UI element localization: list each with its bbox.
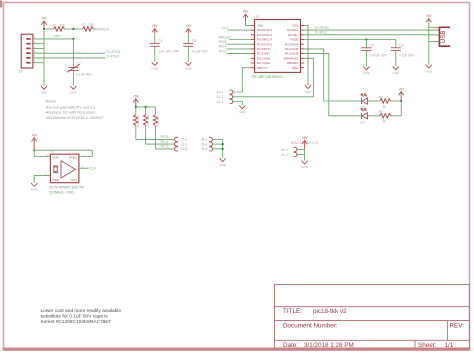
supply +5V (pull-ups): [133, 95, 140, 107]
svg-text:RA4/OSC2: RA4/OSC2: [257, 33, 273, 37]
svg-text:CLK: CLK: [90, 167, 98, 171]
U3 right pin names: [284, 24, 299, 70]
svg-text:D+/PGD: D+/PGD: [107, 50, 121, 54]
svg-text:X1: X1: [50, 150, 54, 154]
capacitor C4: [150, 39, 180, 54]
pin J5-6: [201, 147, 213, 151]
pin J5-1: [175, 137, 188, 141]
wire connector pin2 stub: [33, 43, 44, 45]
wire X1 OUT to CLK: [79, 167, 97, 171]
resistor R5: [153, 107, 160, 149]
svg-text:•0Ω Bourns #CR1206-J/-000ELF: •0Ω Bourns #CR1206-J/-000ELF: [46, 115, 105, 120]
wire RC5 net: [219, 40, 251, 44]
svg-text:VDD: VDD: [257, 24, 264, 28]
svg-text:PIC18F14K50/SO: PIC18F14K50/SO: [252, 74, 283, 79]
bottom-left substitution note: [41, 308, 122, 325]
svg-text:1k: 1k: [383, 120, 387, 124]
wire RC4 net: [219, 45, 251, 49]
node dot VPP: [72, 38, 74, 40]
svg-text:R5: R5: [156, 115, 160, 119]
svg-text:10k: 10k: [156, 122, 160, 128]
svg-text:/MCLR: /MCLR: [219, 35, 231, 39]
svg-text:0.1uF 50V: 0.1uF 50V: [192, 49, 208, 53]
ground (U3 VSS): [305, 85, 313, 94]
svg-text:1uF 16V X5R: 1uF 16V X5R: [159, 49, 180, 53]
wire R7 to +5V column: [391, 115, 401, 117]
supply +5V (X1): [31, 134, 38, 151]
svg-text:1/1: 1/1: [445, 342, 454, 349]
svg-text:J5-3: J5-3: [181, 142, 188, 146]
svg-text:+5V: +5V: [426, 14, 433, 18]
wire C4 to GND: [154, 47, 156, 62]
supply +5V (C5): [185, 24, 192, 33]
wire D-/PGC from header: [33, 57, 106, 59]
svg-text:10k: 10k: [146, 122, 150, 128]
svg-text:•Do not populate R1 and C1.: •Do not populate R1 and C1.: [46, 104, 97, 109]
wire D-/PGC to USB: [304, 31, 439, 35]
node dot rail R3: [135, 106, 137, 108]
resistor R6: [379, 95, 391, 109]
pin J5-2: [201, 137, 213, 141]
svg-text:1k: 1k: [383, 105, 387, 109]
svg-text:J4-3: J4-3: [217, 100, 224, 104]
wire J5-2 to gnd column: [212, 138, 223, 140]
wire VSS to ground: [304, 25, 308, 84]
svg-text:C5: C5: [192, 39, 196, 43]
svg-text:Date:: Date:: [283, 342, 298, 349]
wire connector pin6 stub: [33, 62, 44, 64]
svg-text:RB7/TX: RB7/TX: [257, 66, 268, 70]
svg-text:D-/PGC: D-/PGC: [315, 31, 328, 35]
wire J5-6 to gnd column: [212, 148, 223, 150]
wire JH-1 to +5V: [296, 148, 304, 150]
svg-text:330: 330: [89, 23, 95, 27]
svg-text:RB4/AN10: RB4/AN10: [284, 56, 299, 60]
U3 left pin names: [257, 24, 273, 70]
wire VUSB to C2 C3: [304, 39, 396, 41]
ground (USB): [425, 65, 433, 74]
ground (C5): [185, 62, 193, 70]
wire +5V to C4: [154, 34, 156, 44]
node dot VUSB/C2: [365, 38, 367, 40]
wire RC3 net: [219, 49, 251, 53]
svg-text:J5-1: J5-1: [181, 138, 188, 142]
capacitor C1: [67, 61, 92, 76]
wire R1 to node VPP column: [65, 28, 83, 30]
svg-text:pic18-tkk v2: pic18-tkk v2: [313, 308, 347, 315]
svg-text:+5V: +5V: [398, 87, 405, 91]
svg-text:Sheet:: Sheet:: [418, 342, 436, 349]
svg-text:RA1/D-: RA1/D-: [288, 33, 298, 37]
svg-text:/MCLR: /MCLR: [98, 27, 110, 31]
ground (header +5V column): [41, 86, 49, 95]
pin J4-2: [217, 95, 233, 99]
svg-text:0.47uF 50V: 0.47uF 50V: [369, 53, 387, 57]
svg-text:RA5/OSC1: RA5/OSC1: [257, 28, 273, 32]
connector J2: [19, 34, 36, 73]
svg-text:D-: D-: [436, 30, 439, 32]
svg-text:Kemet #C1206C104K5RAC7867: Kemet #C1206C104K5RAC7867: [41, 319, 111, 325]
svg-text:U3: U3: [255, 15, 259, 19]
svg-text:GND: GND: [434, 42, 439, 44]
LED D1: [361, 94, 368, 110]
svg-text:RC0/AN4: RC0/AN4: [285, 42, 298, 46]
svg-text:J5-2: J5-2: [201, 138, 208, 142]
wire C5 to GND: [187, 47, 189, 62]
svg-text:+5V: +5V: [152, 24, 159, 28]
wire vertical VPP to C1: [72, 39, 74, 67]
wire VBUS stub: [429, 26, 439, 28]
svg-text:J4-2: J4-2: [217, 95, 224, 99]
resistor R1: [53, 24, 66, 32]
supply +5V (JH): [302, 136, 309, 149]
wire RC4 to J5-3: [146, 140, 175, 144]
svg-text:RC2/AN6: RC2/AN6: [285, 52, 298, 56]
svg-text:+5V: +5V: [41, 17, 48, 21]
svg-text:RC5/CCP1: RC5/CCP1: [257, 42, 273, 46]
wire JH-2 to ground column: [296, 154, 304, 156]
node dot J5-6: [222, 148, 224, 150]
ground (C2): [363, 66, 371, 74]
wire VDD: [246, 24, 251, 26]
capacitor C5: [183, 39, 208, 54]
svg-text:D+/PGD: D+/PGD: [315, 26, 329, 30]
ground (J5): [219, 158, 227, 167]
supply +5V (header): [41, 17, 48, 29]
svg-text:GND: GND: [185, 67, 193, 71]
pin J4-1: [217, 90, 233, 94]
LED D2: [361, 109, 368, 125]
ground (JH): [301, 161, 309, 170]
svg-text:J5-6: J5-6: [201, 147, 208, 151]
svg-text:GND: GND: [219, 163, 227, 167]
svg-text:J2: J2: [19, 70, 23, 74]
U3 right pin stubs: [301, 25, 305, 67]
pin J4-3: [217, 99, 233, 104]
wire C1 to GND: [72, 71, 74, 86]
svg-text:RC4: RC4: [161, 140, 168, 144]
wire D+/PGD to USB: [304, 26, 439, 30]
pin JH-1: [281, 147, 297, 152]
wire RC5 to J5-1: [136, 135, 175, 139]
svg-text:RC4/P1B: RC4/P1B: [257, 47, 270, 51]
svg-text:C4: C4: [158, 39, 162, 43]
svg-text:GND: GND: [363, 71, 371, 75]
wire D2 to R7: [368, 115, 380, 117]
wire C2 top: [365, 40, 367, 48]
svg-text:USB: USB: [440, 30, 447, 43]
svg-text:J5-5: J5-5: [181, 147, 188, 151]
svg-text:CLK: CLK: [222, 26, 230, 30]
svg-text:ECS-4PMO-120-TR: ECS-4PMO-120-TR: [50, 184, 85, 189]
wire X1 VDD: [34, 150, 50, 156]
wire vertical +5V/GND column: [43, 29, 45, 86]
resistor R4: [143, 107, 150, 144]
svg-text:J5-4: J5-4: [201, 142, 208, 146]
svg-text:RC7/AN9: RC7/AN9: [257, 61, 270, 65]
svg-text:RA0/D+: RA0/D+: [287, 28, 298, 32]
svg-text:RA3/MCLR: RA3/MCLR: [257, 38, 273, 42]
svg-text:substitute for 0.1uF 50V caps: substitute for 0.1uF 50V caps is: [41, 314, 109, 320]
wire RC3 to J5-5: [155, 145, 174, 149]
wire USB +5V column: [428, 21, 430, 64]
wire U3 RC2 riser to D2: [304, 54, 361, 116]
svg-text:GND: GND: [31, 188, 39, 192]
svg-text:GND: GND: [151, 67, 159, 71]
svg-text:JH-1: JH-1: [281, 148, 288, 152]
oscillator X1 body: [45, 150, 85, 183]
supply +5V (LEDs): [398, 87, 405, 101]
wire J4-1 to U3 RB7: [232, 68, 251, 92]
wire CLK to OSC1: [222, 26, 251, 30]
svg-text:RC1/AN5: RC1/AN5: [285, 47, 298, 51]
svg-text:J4-1: J4-1: [217, 90, 224, 94]
svg-text:RC3: RC3: [161, 145, 168, 149]
wire J5 gnd column: [222, 139, 224, 158]
svg-text:RC4: RC4: [219, 45, 226, 49]
node dot rail R4: [145, 106, 147, 108]
svg-text:VSS: VSS: [292, 24, 298, 28]
ground (C3): [392, 66, 400, 74]
svg-text:RC6/AN8: RC6/AN8: [257, 56, 270, 60]
pin J5-5: [175, 147, 188, 151]
wire J4-2 to U3 RB4: [232, 58, 313, 97]
supply +5V (C4): [152, 24, 159, 33]
wire connector pin3 stub: [33, 47, 44, 49]
svg-text:RC3: RC3: [219, 49, 226, 53]
svg-text:+5V: +5V: [133, 95, 140, 99]
svg-text:Notes:: Notes:: [46, 99, 58, 104]
svg-text:GND: GND: [305, 90, 313, 94]
svg-text:GND: GND: [239, 110, 247, 114]
wire U3 RC1 riser to D1: [304, 49, 361, 101]
svg-text:10k: 10k: [136, 122, 140, 128]
svg-text:+5V: +5V: [31, 134, 38, 138]
svg-text:VDD: VDD: [52, 156, 59, 160]
svg-text:(12MHz, +5V): (12MHz, +5V): [50, 190, 75, 195]
wire D1 to R6: [368, 100, 380, 102]
svg-text:RB5/RX: RB5/RX: [287, 61, 298, 65]
svg-text:+5V: +5V: [243, 10, 250, 14]
svg-text:STBY: STBY: [69, 156, 77, 160]
ground (X1): [31, 183, 39, 192]
svg-text:JH-2: JH-2: [281, 153, 288, 157]
svg-text:RC5: RC5: [161, 135, 168, 139]
ground (C1): [70, 86, 78, 95]
svg-text:GND: GND: [70, 91, 78, 95]
wire USB GND stub: [429, 41, 439, 43]
svg-text:D-/PGC: D-/PGC: [107, 55, 120, 59]
svg-text:C3: C3: [399, 43, 403, 47]
U3 left pin stubs: [251, 25, 255, 67]
svg-text:RC5: RC5: [219, 40, 226, 44]
wire /MCLR to RA3: [219, 35, 251, 39]
svg-text:C2: C2: [369, 43, 373, 47]
connector USB: [432, 27, 450, 46]
svg-text:GND: GND: [425, 69, 433, 73]
wire R6 to +5V column: [391, 100, 401, 102]
resistor R7: [379, 110, 391, 124]
resistor R3: [134, 107, 141, 139]
node dot R1/R2 junction: [72, 28, 74, 30]
wire J5-4 to gnd column: [212, 143, 223, 145]
node dot J5-4: [222, 143, 224, 145]
wire R2 to /MCLR label: [94, 28, 98, 30]
node dot +5V/R1: [43, 28, 45, 30]
wire +5V to R1: [44, 28, 54, 30]
wire J4-3 to ground: [232, 102, 242, 106]
svg-text:REV:: REV:: [450, 323, 465, 330]
notes text: [46, 99, 105, 121]
wire D+/PGD from header: [33, 52, 106, 54]
svg-text:GND: GND: [52, 178, 60, 182]
resistor R2: [82, 23, 95, 31]
svg-text:Document Number:: Document Number:: [283, 323, 338, 330]
capacitor C3: [391, 43, 415, 57]
wire X1 GND pin: [34, 176, 50, 183]
svg-text:D2: D2: [361, 120, 365, 124]
svg-text:Lower cost and more readily av: Lower cost and more readily available: [41, 308, 122, 314]
svg-text:3/1/2018 1:28 PM: 3/1/2018 1:28 PM: [304, 342, 354, 349]
wire +5V to C5: [187, 34, 189, 44]
svg-text:0.1uF 50V: 0.1uF 50V: [76, 73, 92, 77]
svg-text:VBUS: VBUS: [432, 27, 438, 29]
svg-text:R3: R3: [136, 115, 140, 119]
svg-text:TITLE:: TITLE:: [283, 308, 302, 315]
svg-text:VPP: VPP: [54, 35, 62, 39]
wire C3 to GND: [395, 51, 397, 66]
svg-text:+5V: +5V: [302, 136, 309, 140]
svg-text:R4: R4: [146, 115, 150, 119]
ground (C4): [151, 62, 159, 70]
svg-text:GND: GND: [41, 91, 49, 95]
wire pull-up top rail: [136, 106, 156, 108]
svg-text:+5V: +5V: [185, 24, 192, 28]
capacitor C2: [361, 43, 387, 57]
wire X1 top loop to STBY: [34, 150, 92, 156]
wire +5V column to R7 row: [400, 101, 402, 116]
svg-text:GND: GND: [392, 71, 400, 75]
op-amp U3 body: [252, 15, 301, 79]
supply +5V (USB): [426, 14, 433, 22]
wire C2 to GND: [365, 51, 367, 66]
svg-text:VUSB: VUSB: [290, 38, 298, 42]
wire VPP row: [33, 35, 74, 39]
svg-text:GND: GND: [301, 165, 309, 169]
svg-text:RC3/AN7: RC3/AN7: [257, 52, 270, 56]
supply +5V (U3 VDD): [243, 10, 250, 26]
node dot X1 +5V: [33, 149, 35, 151]
svg-text:OUT: OUT: [70, 178, 77, 182]
svg-text:RB6: RB6: [292, 66, 298, 70]
wire JH ground column: [304, 149, 306, 160]
title block: [275, 285, 470, 350]
svg-text:0.1uF 50V: 0.1uF 50V: [399, 53, 415, 57]
node dot R6/+5V: [400, 100, 402, 102]
pin J5-4: [201, 142, 213, 146]
pin J5-3: [175, 142, 188, 146]
wire C3 top: [395, 40, 397, 48]
pin JH-2: [281, 152, 297, 157]
svg-text:•Replace R2 with 0Ω jumper.: •Replace R2 with 0Ω jumper.: [46, 110, 97, 115]
ground (J4-3): [239, 105, 247, 114]
